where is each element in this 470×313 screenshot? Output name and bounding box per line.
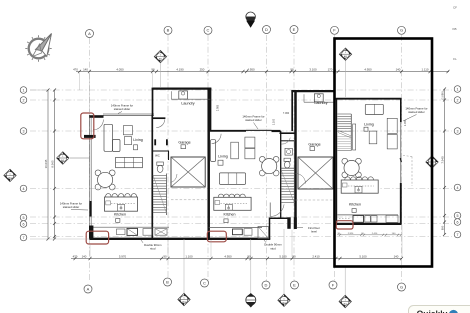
svg-text:Garage: Garage — [308, 142, 320, 146]
svg-text:Garage: Garage — [178, 140, 190, 144]
svg-text:stained slider: stained slider — [245, 118, 262, 122]
right vertical dimension chain — [440, 88, 446, 237]
door arc unit2 top left — [212, 134, 222, 144]
svg-text:90: 90 — [151, 67, 155, 71]
svg-text:Living: Living — [218, 155, 227, 159]
label slider left wall — [60, 202, 88, 211]
toilet unit1 — [157, 162, 164, 172]
unit3 right wall with window segments — [400, 98, 401, 224]
unit2 porch step walls — [270, 218, 288, 240]
grid bubble 1 right — [454, 86, 461, 93]
dining table unit3 — [342, 158, 361, 177]
kitchen island unit3 — [341, 177, 378, 193]
label Double 90mm stud unit2 — [264, 240, 282, 250]
label slider unit2 — [242, 115, 264, 130]
door arc wc1/garage — [170, 174, 177, 183]
svg-text:90: 90 — [290, 67, 294, 71]
unit2 hall wall — [280, 131, 282, 218]
grid bubble B bottom — [164, 278, 172, 286]
bottom dimension line — [71, 254, 403, 260]
label first floor level — [297, 226, 320, 234]
grid bubble 5 left — [20, 214, 27, 221]
toilet unit2 — [284, 158, 290, 168]
unit1 left wall — [84, 116, 96, 240]
grid bubble 2 left — [20, 97, 27, 104]
sofa L unit1 — [104, 124, 120, 151]
svg-text:90: 90 — [163, 254, 167, 258]
vertical gridlines A-G — [90, 35, 402, 281]
svg-text:(1.080): (1.080) — [440, 91, 444, 99]
kitchen outlet unit1 — [116, 219, 120, 223]
couch unit2 — [220, 173, 246, 185]
svg-text:1.100: 1.100 — [273, 118, 276, 125]
grid bubble 2 right — [454, 97, 461, 104]
svg-text:A01: A01 — [8, 176, 11, 179]
washing machine unit3 — [314, 94, 323, 102]
laundry block2 left wall — [291, 90, 293, 131]
label slider unit3 right — [403, 107, 428, 122]
svg-text:C: C — [203, 280, 206, 285]
svg-text:stained slider: stained slider — [408, 110, 425, 114]
svg-text:2.920: 2.920 — [348, 233, 354, 235]
grid bubble 7 right — [454, 231, 461, 238]
cabinets unit3 right — [387, 118, 397, 149]
svg-text:90: 90 — [247, 254, 251, 258]
dashed door swing unit3 right — [403, 156, 412, 187]
svg-text:5: 5 — [457, 214, 459, 218]
svg-text:Living: Living — [133, 138, 142, 142]
svg-text:3: 3 — [457, 129, 459, 133]
svg-text:4.950: 4.950 — [224, 254, 232, 258]
unit3 counter dashes — [339, 217, 351, 219]
stairs unit2 — [281, 171, 294, 204]
svg-text:Laundry: Laundry — [314, 101, 327, 105]
svg-text:Kitchen: Kitchen — [114, 213, 126, 217]
svg-text:A01: A01 — [344, 55, 347, 58]
grid bubble A top — [86, 30, 94, 38]
stair rail unit3 — [353, 124, 356, 150]
grid bubble 1 left — [20, 87, 27, 94]
svg-text:2.410: 2.410 — [312, 254, 320, 258]
elevation marker bottom B — [183, 239, 185, 293]
datum marker bottom C/D — [246, 239, 256, 308]
svg-text:4.950: 4.950 — [247, 67, 255, 71]
kitchen outlet unit2 — [224, 219, 228, 223]
svg-text:5.100: 5.100 — [279, 254, 287, 258]
svg-text:stud: stud — [270, 246, 276, 250]
door jambs wc1 — [154, 139, 168, 145]
svg-text:B: B — [167, 28, 170, 33]
grid bubble C top — [204, 26, 212, 34]
unit1 hall stub wall — [153, 117, 165, 119]
svg-text:1.090: 1.090 — [404, 119, 407, 126]
svg-text:140: 140 — [83, 67, 88, 71]
grid bubble E top — [290, 26, 298, 34]
label Double 90mm stud unit1 — [141, 240, 162, 251]
units1-2 bottom wall — [90, 238, 271, 240]
svg-text:140: 140 — [396, 67, 401, 71]
svg-text:E: E — [293, 27, 296, 32]
label slider unit1 — [111, 104, 133, 114]
laundry block1 right wall — [210, 88, 212, 132]
svg-text:16.035: 16.035 — [44, 159, 48, 168]
unit3 top wall — [336, 98, 402, 100]
dining table unit1 — [95, 170, 115, 190]
grid bubble 7 left — [20, 234, 27, 241]
svg-text:A01: A01 — [344, 303, 347, 306]
door arc unit1 top left — [93, 120, 103, 130]
svg-text:Living: Living — [364, 123, 373, 127]
grid bubble G bottom — [398, 283, 406, 291]
grid bubble 3 left — [20, 128, 27, 135]
svg-text:Kitchen: Kitchen — [224, 213, 236, 217]
kitchen island unit2 — [214, 194, 251, 210]
garage1 door dashed — [171, 199, 209, 201]
elevation marker bottom D/E — [283, 229, 285, 294]
kitchen counter unit2 — [209, 227, 269, 239]
party wall unit1/unit2 — [207, 88, 210, 239]
svg-text:2.410: 2.410 — [372, 233, 378, 235]
top dimension line — [73, 67, 449, 73]
svg-text:6: 6 — [457, 220, 459, 224]
svg-text:470: 470 — [73, 67, 78, 71]
elevation marker right box edge — [426, 156, 438, 168]
svg-text:3: 3 — [23, 129, 25, 133]
garage2 X square — [298, 157, 333, 189]
coffee table unit3 — [369, 131, 377, 144]
svg-text:FL: FL — [453, 57, 457, 61]
door arc unit2 hall bottom — [270, 203, 284, 217]
red marker window left wall — [81, 113, 94, 139]
unit2 top wall — [210, 129, 295, 133]
garage2 door dashed — [296, 199, 337, 201]
kitchen outlet unit3 — [352, 209, 356, 213]
grid bubble 4 left — [20, 185, 27, 192]
svg-text:1: 1 — [23, 88, 25, 92]
grid bubble 6 left — [20, 221, 27, 228]
svg-text:WC: WC — [155, 153, 160, 157]
bottom extension lines — [90, 225, 402, 257]
unit1 living/garage wall — [151, 115, 153, 240]
interior micro dims — [216, 104, 407, 126]
grid bubble 4 right — [454, 184, 461, 191]
svg-text:stained slider: stained slider — [114, 107, 131, 111]
svg-text:G: G — [400, 284, 403, 289]
svg-text:2: 2 — [457, 98, 459, 102]
elevation marker left wall — [70, 157, 89, 159]
svg-text:KB: KB — [452, 27, 456, 31]
sofa unit3 — [365, 104, 383, 114]
svg-text:600: 600 — [440, 225, 444, 230]
svg-text:1.100: 1.100 — [185, 254, 193, 258]
svg-text:1.110: 1.110 — [421, 67, 428, 71]
svg-text:Laundry: Laundry — [181, 101, 194, 105]
svg-text:level: level — [311, 230, 317, 234]
door arc unit1 hall door — [156, 120, 165, 128]
svg-text:C: C — [207, 28, 210, 33]
garage1 outlet box — [181, 145, 186, 149]
grid bubble B top — [164, 26, 172, 34]
svg-text:A01: A01 — [282, 301, 285, 304]
svg-text:5.970: 5.970 — [119, 254, 127, 258]
grid bubble F bottom — [329, 281, 337, 289]
coffee table unit1 — [116, 157, 143, 167]
svg-text:Kitchen: Kitchen — [349, 202, 361, 206]
red marker unit2 bottom — [207, 231, 226, 242]
svg-text:170: 170 — [328, 67, 333, 71]
party wall unit2/unit3 — [294, 91, 297, 229]
svg-text:stained slider: stained slider — [63, 205, 80, 209]
top extension lines — [80, 61, 346, 114]
svg-text:G: G — [400, 28, 403, 33]
grid bubble E bottom — [291, 281, 299, 289]
svg-text:1: 1 — [457, 87, 459, 91]
elevation marker top F — [339, 48, 351, 60]
kitchen counter unit3 — [337, 215, 398, 222]
laundry block2 top wall — [291, 90, 334, 92]
tv unit3 — [364, 127, 368, 131]
svg-text:140: 140 — [82, 254, 87, 258]
basin unit2 — [285, 148, 292, 155]
laundry2 bench — [304, 94, 334, 102]
svg-text:4.190: 4.190 — [176, 67, 184, 71]
shelves unit2 — [245, 137, 255, 159]
grid bubble D bottom — [262, 281, 270, 289]
selection highlight box unit3 — [335, 39, 433, 267]
grid bubble A bottom — [84, 285, 92, 293]
svg-text:4.950: 4.950 — [364, 67, 372, 71]
laundry1 bench — [171, 91, 210, 99]
svg-text:90: 90 — [292, 254, 296, 258]
unit2 porch piers — [287, 217, 297, 229]
svg-text:4: 4 — [457, 186, 459, 190]
grid bubble C bottom — [201, 279, 209, 287]
table unit2 — [231, 142, 239, 159]
svg-text:6: 6 — [23, 222, 25, 226]
svg-text:7: 7 — [23, 236, 25, 240]
laundry block1 left wall — [152, 88, 154, 116]
door arc unit2 stairs to garage2 — [296, 174, 306, 184]
elevation marker far left dark — [4, 169, 16, 181]
unit1 top wall with slider opening — [89, 114, 154, 117]
grid bubble D top — [263, 26, 271, 34]
corner annotations CF KB FL — [452, 6, 457, 62]
wc1 walls — [153, 151, 170, 160]
svg-text:5: 5 — [23, 216, 25, 220]
svg-text:7: 7 — [457, 233, 459, 237]
svg-text:8.965: 8.965 — [51, 160, 55, 168]
svg-text:470: 470 — [73, 254, 78, 258]
tv unit1 — [134, 145, 138, 150]
left vertical dimension chain — [30, 89, 90, 241]
svg-text:2: 2 — [23, 98, 25, 102]
svg-text:7.940: 7.940 — [440, 156, 444, 164]
svg-text:A: A — [88, 31, 91, 36]
garage1 X square — [171, 157, 205, 187]
svg-text:A01: A01 — [159, 58, 162, 61]
dining table unit2 — [259, 156, 279, 176]
svg-text:A: A — [87, 286, 90, 291]
watermark logo bottom right — [409, 306, 470, 313]
kitchen counter unit1 — [92, 227, 169, 237]
svg-text:D: D — [265, 27, 268, 32]
svg-text:CF: CF — [453, 6, 457, 10]
svg-text:7.060: 7.060 — [283, 112, 290, 115]
svg-text:250: 250 — [200, 67, 205, 71]
red marker unit3 bottom — [336, 221, 353, 229]
svg-text:4: 4 — [23, 187, 25, 191]
svg-text:E: E — [293, 282, 296, 287]
svg-text:4.050: 4.050 — [116, 67, 124, 71]
datum marker top D — [246, 12, 256, 28]
unit3 left wall — [336, 98, 338, 224]
unit3 bottom wall — [336, 223, 402, 225]
grid bubble G top — [398, 26, 406, 34]
svg-text:A01: A01 — [61, 159, 64, 162]
kitchen island unit1 — [105, 194, 138, 212]
garage2 outlet box — [310, 147, 315, 151]
tv unit2 — [218, 160, 223, 165]
svg-text:A01: A01 — [182, 301, 185, 304]
svg-text:5.100: 5.100 — [359, 254, 367, 258]
svg-text:140: 140 — [394, 254, 399, 258]
svg-text:3.100: 3.100 — [309, 67, 317, 71]
north arrow compass — [25, 34, 51, 62]
stairs unit3 — [337, 114, 351, 151]
svg-text:Quickly: Quickly — [417, 309, 448, 313]
door arc wc2 — [281, 138, 290, 144]
grid bubble 5 right — [454, 212, 461, 219]
svg-text:2.985: 2.985 — [216, 104, 219, 111]
stairs unit1 — [153, 174, 167, 216]
unit3 micro dimension row — [337, 233, 402, 236]
grid bubble 6 right — [454, 219, 461, 226]
laundry block1 top wall — [152, 87, 212, 89]
side tables unit1 — [123, 126, 132, 145]
unit1 bottom-left corner pier — [89, 226, 93, 240]
horizontal gridlines 1-7 — [30, 90, 452, 237]
elevation marker bottom F/G — [344, 267, 346, 295]
washing machine unit1 — [179, 91, 188, 99]
svg-text:D: D — [265, 282, 268, 287]
svg-text:B: B — [166, 279, 169, 284]
sofa unit2 left wall — [211, 140, 216, 162]
grid bubble 3 right — [454, 128, 461, 135]
grid bubble F top — [331, 26, 339, 34]
elevation marker top B — [154, 50, 166, 62]
svg-text:stud: stud — [150, 247, 156, 251]
red marker unit1 bottom — [86, 231, 108, 244]
wc2 walls — [281, 141, 294, 168]
